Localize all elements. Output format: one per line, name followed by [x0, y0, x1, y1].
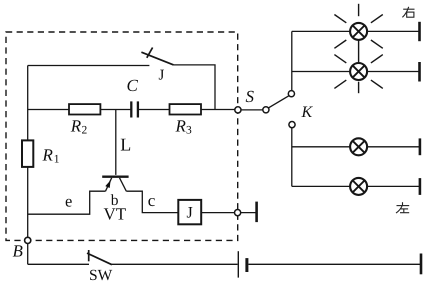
right lamp2 end bar	[418, 62, 421, 82]
switch SW blade	[87, 253, 112, 265]
terminal S circle	[235, 107, 241, 113]
wire: S to switch pivot	[241, 109, 263, 111]
contact K circle	[289, 122, 295, 128]
wire: switch SW to battery	[112, 263, 238, 265]
relay coil J box	[178, 200, 201, 224]
svg-text:S: S	[246, 87, 255, 106]
svg-text:L: L	[120, 135, 131, 155]
wire: right lamp 1 branch	[292, 30, 420, 32]
svg-text:R: R	[70, 117, 82, 136]
transistor VT emitter lead	[106, 178, 112, 191]
wire: R2/C/R3 row	[28, 109, 132, 111]
resistor R1	[22, 140, 33, 167]
wire: bottom rail to switch SW	[28, 263, 89, 265]
relay output end bar	[255, 202, 258, 223]
capacitor C plate left	[130, 101, 132, 117]
transistor VT base bar	[102, 175, 128, 177]
switch SW tick	[88, 250, 90, 261]
svg-text:SW: SW	[89, 267, 113, 284]
svg-text:J: J	[187, 204, 193, 221]
wire: relay coil to output terminal	[201, 212, 234, 214]
upper contact circle	[288, 91, 294, 97]
svg-text:R: R	[42, 146, 54, 165]
relay output terminal circle	[235, 210, 241, 216]
transistor VT collector lead	[120, 178, 127, 191]
wire: from contact J to right then down to R3 output node	[174, 65, 215, 110]
wire: capacitor to R3 and on to terminal S	[138, 109, 235, 111]
wire: right-lamp bus vertical	[291, 31, 293, 90]
wire: left vertical bus from top corner down to node B	[27, 66, 29, 238]
battery short plate	[245, 258, 248, 272]
svg-text:e: e	[65, 192, 72, 211]
svg-text:VT: VT	[104, 205, 127, 224]
contact J tick	[147, 48, 153, 58]
svg-text:1: 1	[54, 154, 60, 166]
svg-text:2: 2	[82, 125, 88, 137]
lamp EL2	[350, 63, 367, 80]
resistor R3	[170, 104, 202, 114]
right lamp1 end bar	[418, 22, 421, 41]
switch pivot circle	[263, 107, 269, 113]
left lamp4 end bar	[419, 178, 422, 195]
wire: base lead L from row down to transistor	[115, 110, 117, 175]
left lamp3 end bar	[419, 138, 422, 155]
lamp EL3	[350, 138, 367, 155]
dashed enclosure box	[6, 32, 238, 240]
capacitor C plate right	[137, 101, 139, 117]
wire: top horizontal to relay contact J	[28, 65, 150, 67]
svg-text:c: c	[148, 191, 156, 210]
lamp EL4	[350, 178, 367, 195]
lamp EL2 rays	[334, 55, 382, 94]
node B circle	[25, 237, 31, 243]
bottom right end bar	[420, 254, 423, 275]
svg-text:3: 3	[186, 125, 192, 137]
label right (you)	[402, 7, 414, 17]
svg-text:C: C	[127, 76, 139, 95]
wire/ray: vertical between lamps	[358, 40, 360, 63]
wire: collector to relay coil J	[126, 191, 178, 212]
switch blade to upper contact	[269, 96, 289, 108]
wire: node B down to bottom rail	[27, 244, 29, 265]
svg-text:K: K	[301, 104, 314, 121]
wire: terminal to end bar	[241, 212, 257, 214]
resistor R2	[69, 104, 100, 114]
svg-text:B: B	[13, 242, 24, 261]
wire: right lamp 2 branch	[292, 71, 420, 73]
contact J blade	[141, 52, 173, 65]
svg-text:R: R	[175, 117, 187, 136]
wire: left lamp 3 branch	[292, 146, 420, 148]
battery long plate	[237, 251, 239, 277]
label left (zuo)	[396, 202, 409, 213]
lamp EL1	[350, 23, 367, 40]
wire: left-lamp bus vertical	[291, 128, 293, 187]
transistor VT emitter arrow	[105, 180, 110, 188]
lamp EL1 rays	[334, 4, 382, 49]
wire: emitter to left bus	[28, 191, 106, 214]
svg-text:J: J	[159, 68, 165, 84]
wire: left lamp 4 branch	[292, 185, 420, 187]
wire: battery to right end bar	[248, 263, 421, 265]
